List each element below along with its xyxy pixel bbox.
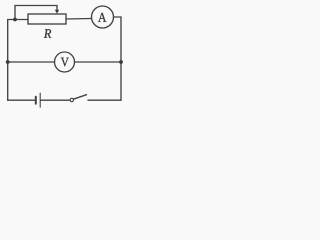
voltmeter V circle <box>55 52 75 72</box>
battery short plate (negative) <box>35 97 37 104</box>
ammeter A circle <box>92 6 114 28</box>
node: junction voltmeter right <box>119 60 123 64</box>
wire: voltmeter branch right <box>75 61 122 63</box>
node: junction voltmeter left <box>6 60 10 64</box>
rheostat slider wire <box>15 6 57 20</box>
switch lever (open) <box>73 95 86 100</box>
label V (voltmeter) <box>61 58 69 67</box>
wire: battery to switch <box>41 99 70 101</box>
node: junction at slider tap <box>13 18 17 22</box>
rheostat R body box <box>28 14 66 24</box>
wire: ammeter to right vertical <box>114 16 122 18</box>
wire: left vertical main <box>7 20 9 101</box>
rheostat slider arrowhead <box>55 10 59 14</box>
battery long plate (positive) <box>39 93 41 107</box>
wire: switch to bottom right <box>88 99 121 101</box>
wire: bottom left to battery <box>8 99 35 101</box>
label R <box>44 29 51 38</box>
wire: rheostat to ammeter <box>66 18 92 21</box>
wire: top-left horizontal to rheostat <box>8 19 28 21</box>
switch pivot circle <box>70 98 73 101</box>
wire: voltmeter branch left <box>8 61 55 63</box>
label A (ammeter) <box>98 13 106 22</box>
wire: right vertical main <box>120 17 122 100</box>
